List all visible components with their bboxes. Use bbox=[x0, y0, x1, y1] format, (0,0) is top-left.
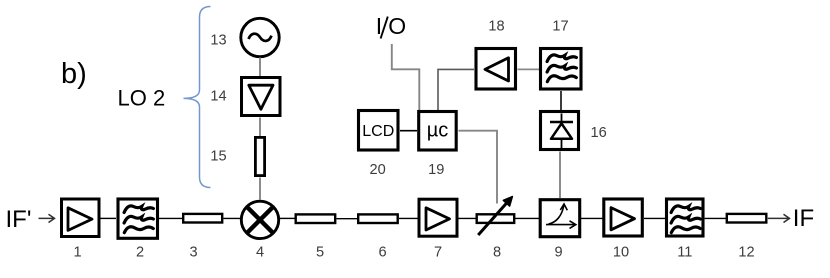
amplifier 10 bbox=[604, 199, 643, 236]
transmission line 6 bbox=[358, 214, 398, 223]
wire 6-7 bbox=[399, 217, 418, 219]
oscillator 13 bbox=[241, 18, 279, 56]
wire LCD-uC bbox=[400, 130, 417, 132]
wire 10-11 bbox=[644, 217, 665, 219]
amplifier 7 bbox=[419, 199, 457, 236]
svg-text:8: 8 bbox=[493, 244, 501, 260]
wire 1-2 bbox=[101, 217, 117, 219]
variable attenuator 8 bbox=[477, 197, 515, 235]
transmission line 5 bbox=[296, 214, 336, 223]
svg-text:4: 4 bbox=[256, 244, 264, 260]
svg-text:5: 5 bbox=[316, 244, 324, 260]
amplifier 1 bbox=[62, 199, 100, 237]
transmission line 12 bbox=[727, 214, 767, 223]
wire 7-8 bbox=[459, 217, 477, 219]
svg-text:18: 18 bbox=[488, 19, 504, 35]
wire 11-12 bbox=[705, 217, 726, 219]
filter 17 bbox=[541, 49, 582, 90]
svg-text:µc: µc bbox=[427, 120, 449, 142]
wire 17-16 bbox=[560, 91, 562, 110]
wire 2-3 bbox=[159, 217, 182, 219]
svg-text:LO 2: LO 2 bbox=[118, 86, 166, 111]
wire 13-14 bbox=[259, 58, 261, 77]
wire 9-10 bbox=[581, 217, 603, 219]
svg-text:14: 14 bbox=[210, 88, 226, 104]
svg-text:16: 16 bbox=[591, 125, 607, 141]
svg-text:LCD: LCD bbox=[362, 123, 394, 140]
wire 3-4 bbox=[224, 217, 241, 219]
svg-text:20: 20 bbox=[369, 162, 385, 178]
transmission line 3 bbox=[183, 214, 222, 223]
node I/O label bbox=[376, 13, 406, 39]
svg-text:3: 3 bbox=[189, 244, 197, 260]
amplifier 18 bbox=[476, 49, 516, 90]
svg-text:10: 10 bbox=[613, 244, 629, 260]
wire: IF output arrow bbox=[768, 214, 790, 222]
svg-text:9: 9 bbox=[554, 244, 562, 260]
svg-text:2: 2 bbox=[136, 244, 144, 260]
svg-text:12: 12 bbox=[738, 244, 754, 260]
wire uC to attenuator 8 (control) bbox=[459, 131, 498, 204]
wire 15-4 bbox=[259, 178, 261, 201]
wire 8-9 bbox=[515, 217, 539, 219]
svg-text:15: 15 bbox=[210, 149, 226, 165]
wire 5-6 bbox=[337, 218, 358, 220]
wire 16-9 bbox=[559, 152, 561, 199]
svg-text:17: 17 bbox=[552, 19, 568, 35]
svg-text:19: 19 bbox=[428, 162, 444, 178]
directional coupler 9 bbox=[540, 200, 580, 237]
wire 18-17 bbox=[518, 68, 540, 70]
mixer 4 bbox=[241, 201, 278, 238]
microcontroller 19 bbox=[419, 112, 457, 151]
amplifier 14 bbox=[242, 78, 281, 116]
wire 4-5 bbox=[280, 217, 296, 219]
svg-text:6: 6 bbox=[378, 244, 386, 260]
svg-text:7: 7 bbox=[434, 244, 442, 260]
svg-text:IF: IF bbox=[793, 205, 814, 232]
brace for LO 2 group bbox=[184, 7, 211, 188]
svg-text:13: 13 bbox=[210, 32, 226, 48]
transmission line 15 bbox=[255, 137, 264, 175]
filter 2 bbox=[118, 199, 158, 238]
svg-text:O: O bbox=[388, 13, 406, 39]
filter 11 bbox=[667, 199, 704, 236]
svg-text:b): b) bbox=[61, 58, 87, 90]
LCD display 20 bbox=[359, 111, 399, 151]
svg-text:1: 1 bbox=[73, 244, 81, 260]
svg-text:11: 11 bbox=[677, 244, 692, 260]
wire: IF' input arrow bbox=[39, 214, 55, 222]
wire 14-15 bbox=[259, 118, 261, 137]
svg-text:IF': IF' bbox=[6, 206, 32, 233]
wire uC to amplifier 18 bbox=[438, 69, 474, 110]
detector diode 16 bbox=[541, 112, 579, 150]
wire I/O to uC bbox=[392, 44, 420, 110]
